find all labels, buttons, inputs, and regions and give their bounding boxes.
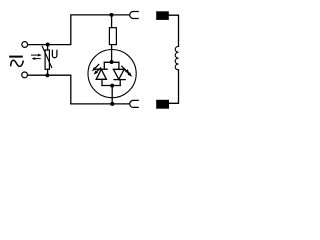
input terminal top (22, 42, 28, 48)
polarity arrow left (31, 57, 40, 60)
lead to bottom rail (111, 86, 113, 104)
left LED emission arrows (92, 64, 101, 74)
label U (52, 50, 57, 57)
wire top-left to top rail (28, 15, 129, 45)
right LED emission arrows (122, 66, 132, 76)
wire coil to pad bottom (169, 70, 179, 103)
top bus of LED pair (104, 61, 119, 63)
varistor U (42, 45, 51, 76)
pin pad bottom (156, 100, 169, 109)
socket top (130, 12, 138, 19)
bottom rail junction (110, 102, 114, 106)
right LED branch (113, 62, 125, 85)
resistor (109, 15, 116, 62)
input terminal bottom (22, 72, 28, 78)
pin pad top (156, 11, 169, 20)
relay coil (175, 46, 178, 70)
AC/DC supply symbol (10, 57, 23, 67)
wire bottom-left to bottom rail (28, 75, 129, 104)
polarity arrow right (32, 54, 42, 57)
socket bottom (130, 100, 138, 107)
bottom bus of LED pair (102, 85, 120, 87)
junction varistor bottom (45, 73, 49, 77)
top rail junction (110, 13, 114, 17)
LED indicator circle (88, 50, 136, 98)
left LED branch (96, 62, 108, 85)
wire pad top to coil (169, 15, 179, 46)
junction varistor top (46, 43, 50, 47)
junction bottom bus (110, 84, 114, 88)
junction top bus (110, 60, 114, 64)
